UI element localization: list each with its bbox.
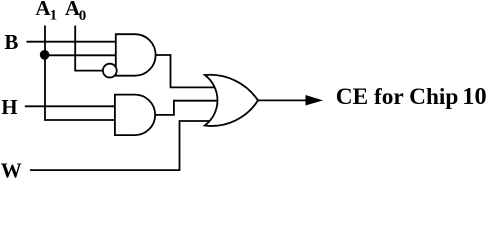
- wire A0 vertical with turn to inverter bubble: [75, 26, 103, 71]
- svg-text:H: H: [1, 95, 17, 119]
- and-gate U2: [115, 95, 155, 136]
- inverter bubble on U1 input: [103, 64, 117, 78]
- wire A1 vertical with turn to AND2 lower input: [45, 26, 115, 121]
- svg-text:10: 10: [462, 83, 486, 110]
- svg-text:0: 0: [79, 8, 87, 24]
- wire W to OR input: [30, 121, 210, 170]
- svg-text:1: 1: [50, 8, 58, 24]
- wire B: [27, 41, 116, 43]
- wire H: [25, 105, 115, 107]
- wire OR output: [258, 99, 308, 101]
- and-gate U1: [116, 34, 156, 75]
- node dot junction on A1 line: [40, 50, 50, 60]
- arrowhead: [306, 95, 324, 106]
- or-gate U3: [205, 75, 258, 126]
- svg-text:B: B: [4, 30, 18, 54]
- svg-text:W: W: [1, 158, 22, 181]
- wire AND1 output to OR input: [156, 55, 215, 87]
- wire AND2 output to OR input: [155, 101, 217, 115]
- wire from node dot to AND1 middle input: [45, 54, 116, 56]
- svg-text:CE for Chip: CE for Chip: [336, 84, 459, 110]
